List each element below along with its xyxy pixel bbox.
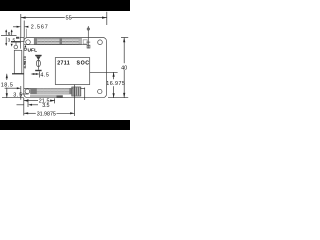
svg-text:16.975: 16.975 [106,81,125,87]
svg-text:6: 6 [8,31,11,37]
svg-text:4.9875: 4.9875 [22,55,27,68]
svg-text:SOC: SOC [77,60,90,66]
svg-text:31.9875: 31.9875 [37,112,56,118]
svg-text:55: 55 [66,16,72,22]
svg-text:UFL: UFL [28,47,38,53]
svg-text:3.5: 3.5 [13,92,22,98]
svg-text:40: 40 [121,65,127,71]
svg-text:18.5: 18.5 [1,82,13,88]
svg-text:4.5: 4.5 [40,73,49,79]
svg-text:3.5: 3.5 [42,103,49,109]
svg-text:2.567: 2.567 [31,24,48,30]
svg-text:3.5: 3.5 [8,37,16,43]
svg-text:2711: 2711 [57,60,69,66]
